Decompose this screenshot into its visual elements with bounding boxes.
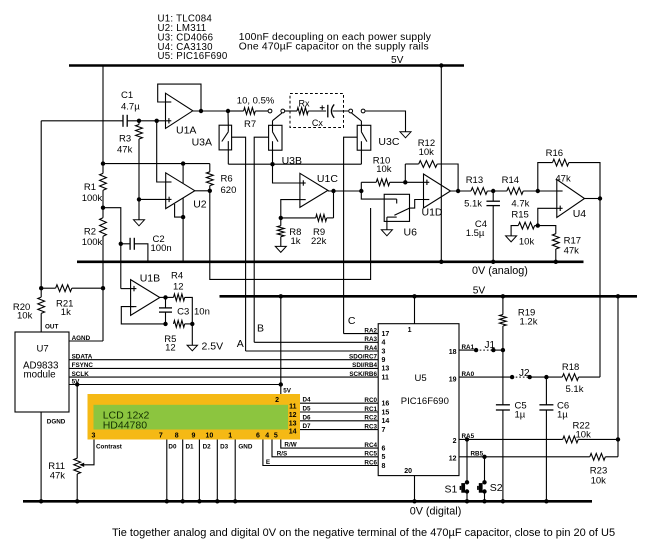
svg-text:47k: 47k (117, 145, 133, 156)
resistor R10 (361, 155, 423, 185)
wire R11 to rail (76, 474, 78, 501)
resistor R7 10 ohm 0.5% (228, 96, 275, 131)
op-amp U1B (131, 273, 161, 316)
wire contrast to pot (83, 440, 94, 465)
svg-text:19: 19 (449, 376, 457, 383)
node DGND rail (39, 499, 43, 503)
wire RA0 pin19 (459, 376, 512, 378)
svg-text:C: C (348, 315, 356, 327)
svg-text:RC5: RC5 (364, 451, 377, 458)
contact circle Rx side (281, 109, 285, 113)
svg-text:1: 1 (228, 433, 232, 440)
svg-text:R7: R7 (244, 119, 256, 130)
svg-text:2.5V: 2.5V (202, 340, 224, 352)
node pullup rail (616, 294, 620, 298)
pot wiper arrow (79, 463, 84, 467)
svg-text:One 470µF capacitor on the sup: One 470µF capacitor on the supply rails (239, 42, 429, 53)
svg-text:U4: U4 (573, 208, 587, 220)
svg-text:13: 13 (289, 420, 297, 427)
wire U2 V+ stub (182, 164, 184, 184)
svg-text:module: module (24, 370, 57, 381)
resistor R9 (281, 215, 334, 247)
svg-text:R18: R18 (562, 362, 579, 373)
svg-text:R2: R2 (84, 227, 96, 238)
2.5V reference symbol (187, 340, 223, 352)
svg-text:C1: C1 (121, 90, 133, 101)
wire to U1C- (281, 200, 300, 218)
push button S1 (445, 439, 470, 501)
PIC right pin numbers (449, 349, 457, 462)
svg-text:3: 3 (92, 433, 96, 440)
svg-text:18: 18 (449, 349, 457, 356)
svg-text:5V: 5V (473, 285, 486, 296)
wire FSYNC to PIC (69, 367, 378, 369)
wire U7 5V (69, 384, 281, 386)
svg-text:8: 8 (175, 433, 179, 440)
svg-text:RA0: RA0 (462, 371, 475, 378)
wire AGND (69, 340, 103, 342)
svg-text:1µ: 1µ (557, 409, 568, 420)
wire tap to U1B+ (121, 288, 131, 290)
svg-text:U5: U5 (415, 373, 427, 384)
U7 AD9833 module box (15, 332, 69, 412)
node switch row / U1C+ (270, 162, 274, 166)
node supply top (439, 63, 443, 67)
svg-text:100n: 100n (151, 243, 172, 254)
op-amp U4 (557, 180, 586, 220)
svg-text:17: 17 (382, 331, 390, 338)
node U4- input (536, 189, 540, 193)
wire C1 to U1A+ (127, 120, 165, 122)
svg-text:U5: PIC16F690: U5: PIC16F690 (158, 51, 228, 62)
wire R10 from U1C out (360, 182, 362, 191)
svg-text:R16: R16 (546, 148, 563, 159)
svg-text:12: 12 (289, 412, 297, 419)
svg-text:1.2k: 1.2k (520, 316, 538, 327)
wire pin1 VDD (414, 296, 416, 323)
node 5V rail LCD (279, 294, 283, 298)
svg-text:10k: 10k (519, 237, 535, 248)
wire U6 out to U1D- (410, 200, 424, 209)
resistor R5 (164, 321, 192, 354)
svg-text:11: 11 (382, 374, 390, 381)
svg-text:7: 7 (159, 433, 163, 440)
capacitor C1 (121, 90, 140, 127)
switch lever to U3C (352, 113, 362, 121)
wire divider tap (103, 208, 121, 289)
jumper J1 (474, 340, 496, 352)
wire 5V to R11 (76, 385, 78, 459)
wire D4 (300, 402, 378, 404)
wire U1B output (160, 296, 174, 298)
svg-text:2: 2 (453, 438, 457, 445)
decoupling note (239, 32, 432, 53)
wire DGND (40, 412, 42, 501)
svg-text:9: 9 (191, 433, 195, 440)
svg-text:12: 12 (449, 455, 457, 462)
analog switch U3C (357, 121, 400, 150)
wire D6 (300, 420, 378, 422)
node C4 (491, 189, 495, 193)
svg-text:5: 5 (382, 454, 386, 461)
resistor R21 (41, 285, 103, 318)
0V analog rail (77, 262, 584, 277)
wire 5V to R1 (102, 66, 104, 174)
wire U1B feedback (121, 307, 165, 324)
wire R2 to 0V rail (102, 236, 104, 262)
svg-text:5V: 5V (283, 387, 292, 394)
capacitor C6 (539, 377, 569, 501)
svg-text:FSYNC: FSYNC (72, 362, 94, 369)
svg-text:U3A: U3A (192, 137, 212, 149)
svg-text:RC1: RC1 (364, 406, 377, 413)
svg-text:D2: D2 (203, 444, 212, 451)
svg-text:Tie together analog and digita: Tie together analog and digital 0V on th… (112, 527, 615, 539)
svg-text:GND: GND (238, 444, 252, 451)
svg-text:PIC16F690: PIC16F690 (401, 396, 449, 407)
wire row to U1C+ (273, 164, 300, 183)
wire switch output row (228, 163, 361, 165)
wire RA4 row (246, 350, 379, 352)
switch lever to U3B (273, 113, 282, 121)
svg-text:10k: 10k (17, 311, 33, 322)
svg-text:SDO/RC7: SDO/RC7 (349, 354, 377, 361)
node U2 gnd (181, 215, 185, 219)
wire U4 output (585, 198, 601, 200)
wire Cx to contact (333, 110, 349, 112)
wire to 2.5V ref (191, 324, 193, 345)
node R7 left / U3A top (226, 109, 230, 113)
svg-text:47k: 47k (50, 471, 66, 482)
resistor R4 (171, 270, 192, 324)
node U1C feedback (331, 189, 335, 193)
svg-text:AGND: AGND (72, 335, 91, 342)
svg-text:S1: S1 (445, 484, 458, 496)
svg-text:R1: R1 (84, 182, 96, 193)
wire 0V rail to AGND (102, 262, 104, 341)
svg-text:U1B: U1B (140, 273, 160, 285)
svg-text:S2: S2 (490, 482, 503, 494)
wire U3A control A (232, 137, 246, 351)
wire D5 (300, 411, 378, 413)
svg-text:U1A: U1A (176, 125, 196, 137)
node S1 branch (465, 437, 469, 441)
wire 5V to pullups (617, 296, 619, 457)
wire U1A+ branch to U2- (157, 121, 166, 182)
wire RW (281, 440, 378, 449)
svg-text:R15: R15 (511, 209, 528, 220)
svg-text:SDATA: SDATA (72, 354, 93, 361)
wire U4 out down to R18 (599, 199, 601, 378)
svg-text:0V (analog): 0V (analog) (472, 265, 528, 277)
svg-text:10: 10 (206, 433, 214, 440)
svg-text:16: 16 (382, 401, 390, 408)
svg-text:RA2: RA2 (364, 327, 377, 334)
op-amp U1C (300, 173, 338, 208)
LCD text (103, 409, 150, 431)
resistor R12 feedback (405, 138, 458, 191)
svg-text:RB5: RB5 (471, 450, 484, 457)
wire U1C output (328, 190, 361, 192)
svg-text:7: 7 (382, 427, 386, 434)
svg-text:R6: R6 (221, 174, 233, 185)
node R15/R17 (536, 223, 540, 227)
ground U6 (381, 230, 392, 236)
svg-text:J2: J2 (519, 368, 530, 379)
svg-text:4.7µ: 4.7µ (121, 102, 140, 113)
wire U4+ to R15/R17 (538, 208, 557, 225)
wire U2 ground pins (175, 204, 184, 217)
svg-text:R3: R3 (119, 134, 131, 145)
wire RB5 pin12 (459, 456, 590, 458)
svg-text:SCLK: SCLK (72, 371, 90, 378)
svg-text:RC3: RC3 (364, 423, 377, 430)
node pin20 rail (412, 499, 416, 503)
svg-text:U6: U6 (404, 227, 418, 239)
svg-text:47k: 47k (555, 174, 571, 185)
LCD yellow body (88, 394, 301, 440)
node to U2 minus (155, 119, 159, 123)
push button S2 (477, 457, 503, 502)
analog switch U6 (384, 194, 417, 238)
svg-text:SCK/RB6: SCK/RB6 (349, 371, 377, 378)
wire U3A bottom to row (227, 150, 229, 164)
PIC left pin labels (349, 327, 377, 466)
node U1B out (163, 295, 167, 299)
node C2 left (119, 242, 123, 246)
node S1 rail (465, 499, 469, 503)
ground U2+ (134, 220, 145, 226)
svg-text:5V: 5V (391, 55, 404, 66)
svg-text:1.5µ: 1.5µ (466, 228, 485, 239)
node S2 rail (482, 499, 486, 503)
svg-text:12: 12 (165, 342, 176, 353)
LCD grounded data pins (166, 440, 168, 502)
wire U1D output (451, 190, 472, 192)
node R17 rail (554, 260, 558, 264)
resistor R20 (13, 288, 45, 332)
wire U3B control B (254, 137, 268, 342)
wire RA2 row (344, 333, 379, 335)
svg-text:R/W: R/W (284, 442, 296, 449)
PIC left pin numbers (382, 331, 390, 470)
node R1/R2 (101, 206, 105, 210)
wire U3C control C (344, 137, 358, 333)
op-amp U2 comparator (166, 173, 207, 211)
resistor R14 (502, 175, 530, 210)
op-amp U1D (422, 174, 451, 219)
contact circle right (361, 109, 365, 113)
node R22/5V line (616, 437, 620, 441)
resistor R17 (538, 226, 581, 262)
svg-text:100k: 100k (82, 193, 103, 204)
wire DDS input row (41, 120, 123, 122)
5V rail (lower) (220, 285, 638, 296)
resistor R13 (464, 175, 487, 210)
resistor R2 (82, 218, 107, 248)
resistor R18 (562, 362, 600, 395)
wire comparator output to U6 control (210, 191, 371, 280)
capacitor C5 (496, 401, 527, 502)
wire R14 to U4- (523, 190, 557, 192)
wire U2+ input node (139, 198, 166, 200)
LCD green screen (94, 405, 289, 430)
svg-text:RC0: RC0 (364, 397, 377, 404)
resistor R6 (206, 164, 236, 196)
node LCD 5V (279, 382, 283, 386)
svg-text:R4: R4 (171, 270, 183, 281)
wire U2 output (195, 190, 210, 192)
node R19 rail (501, 294, 505, 298)
svg-text:3: 3 (382, 348, 386, 355)
node 5V row (101, 161, 105, 165)
svg-text:D7: D7 (303, 423, 312, 430)
wire U1A feedback loop (158, 84, 201, 111)
wire E (263, 440, 378, 466)
svg-text:U7: U7 (37, 344, 49, 355)
analog switch U3B (269, 121, 302, 167)
svg-text:1: 1 (408, 327, 412, 334)
svg-text:1µ: 1µ (515, 409, 526, 420)
LCD pin labels bottom (96, 444, 253, 451)
wire Rx to Cx (308, 110, 326, 112)
node U1A output (199, 109, 203, 113)
node C3 bottom (163, 322, 167, 326)
svg-text:D0: D0 (168, 444, 177, 451)
resistor R19 (500, 296, 538, 350)
resistor R23 (590, 453, 618, 486)
wire R19 line to C5 (502, 350, 504, 405)
wire to signal ground (138, 199, 140, 219)
capacitor C3 (159, 297, 210, 324)
node C6 rail (544, 499, 548, 503)
svg-text:14: 14 (289, 429, 297, 436)
LCD pin numbers bottom (92, 433, 278, 440)
svg-text:RA4: RA4 (364, 345, 377, 352)
svg-text:U2: U2 (193, 199, 207, 211)
svg-text:DGND: DGND (47, 419, 66, 426)
svg-text:20: 20 (404, 468, 412, 475)
svg-text:D4: D4 (303, 397, 312, 404)
svg-text:A: A (237, 338, 244, 350)
svg-text:D3: D3 (220, 444, 229, 451)
node R4/R5 (190, 322, 194, 326)
svg-text:9: 9 (382, 357, 386, 364)
svg-text:U1D: U1D (422, 207, 443, 219)
svg-text:11: 11 (289, 403, 297, 410)
svg-text:8: 8 (382, 463, 386, 470)
svg-text:D5: D5 (303, 406, 312, 413)
resistor R22 (563, 420, 618, 443)
node C4 rail (491, 260, 495, 264)
svg-text:13: 13 (382, 366, 390, 373)
node S2 branch (482, 455, 486, 459)
svg-text:10k: 10k (376, 164, 392, 175)
jumper J2 (510, 368, 532, 379)
potentiometer R11 (48, 458, 80, 481)
parts list text (158, 13, 228, 62)
capacitor C4 (466, 191, 500, 262)
svg-text:D6: D6 (303, 414, 312, 421)
svg-text:0V (digital): 0V (digital) (410, 506, 462, 518)
svg-text:620: 620 (221, 185, 237, 196)
ground R8 (275, 246, 286, 252)
node 5V contrast branch (75, 382, 79, 386)
svg-text:RC6: RC6 (364, 459, 377, 466)
node R11 rail (75, 499, 79, 503)
svg-text:U3C: U3C (378, 136, 399, 148)
svg-text:15: 15 (382, 409, 390, 416)
node U4 out (598, 196, 602, 200)
svg-text:10k: 10k (591, 475, 607, 486)
wire R1 to R2 (102, 190, 104, 218)
wire RS (272, 440, 378, 457)
node U2 output (208, 189, 212, 193)
svg-text:U3B: U3B (282, 155, 302, 167)
wire 5V rail to LCD pin2 (280, 296, 282, 394)
wire contact to Rx box (285, 110, 297, 112)
svg-text:R13: R13 (466, 175, 483, 186)
svg-text:Contrast: Contrast (96, 444, 123, 451)
capacitor Cx polarized (312, 104, 334, 128)
svg-text:4.7k: 4.7k (511, 199, 529, 210)
svg-text:RA3: RA3 (364, 336, 377, 343)
svg-text:1k: 1k (61, 307, 71, 318)
5V rail (top) (69, 55, 464, 66)
svg-text:4: 4 (382, 340, 386, 347)
0V digital rail (23, 501, 592, 517)
wire J2 to C6 (530, 376, 563, 378)
resistor R3 (117, 121, 142, 200)
ground after Cx (400, 132, 411, 138)
node U1D out (456, 189, 460, 193)
wire U3C bottom (360, 150, 362, 164)
op-amp U1A (166, 93, 197, 136)
svg-text:1k: 1k (291, 236, 301, 247)
resistor R15 (511, 209, 538, 247)
U5 PIC16F690 box (378, 324, 459, 476)
svg-text:RC2: RC2 (364, 415, 377, 422)
wire RA3 row (254, 341, 378, 343)
node J1/R19 (501, 348, 505, 352)
svg-text:B: B (257, 323, 264, 335)
node R10/R12/U1D+ (403, 180, 407, 184)
svg-text:C3: C3 (177, 306, 189, 317)
wire U3B bottom (272, 150, 274, 164)
wire U1C out to U6 input (361, 191, 396, 199)
svg-text:6: 6 (382, 445, 386, 452)
dashed box DUT (290, 94, 344, 128)
wire U2 gnd to 0V rail (182, 217, 184, 262)
svg-text:RC4: RC4 (364, 442, 377, 449)
svg-text:12: 12 (173, 282, 184, 293)
svg-text:RA1: RA1 (462, 344, 475, 351)
svg-text:Rx: Rx (299, 99, 310, 109)
svg-text:10k: 10k (419, 147, 435, 158)
svg-text:Cx: Cx (312, 118, 323, 128)
node R20 top (39, 286, 43, 290)
contact circle Cx side (349, 109, 353, 113)
node R21 right (101, 286, 105, 290)
svg-text:14: 14 (382, 418, 390, 425)
svg-text:10, 0.5%: 10, 0.5% (237, 96, 275, 107)
svg-text:22k: 22k (311, 236, 327, 247)
capacitor C2 (121, 234, 172, 262)
wire SCLK to PIC (69, 376, 378, 378)
svg-text:U1C: U1C (317, 173, 338, 185)
svg-text:100k: 100k (82, 237, 103, 248)
svg-text:10k: 10k (576, 429, 592, 440)
